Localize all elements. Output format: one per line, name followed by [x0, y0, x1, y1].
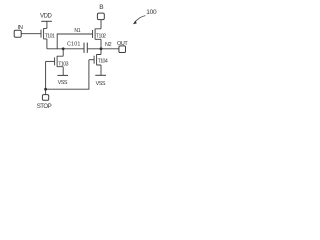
svg-text:N2: N2: [105, 42, 112, 48]
svg-text:VSS: VSS: [58, 80, 68, 86]
svg-text:100: 100: [146, 9, 157, 16]
svg-text:IN: IN: [18, 25, 23, 31]
svg-text:OUT: OUT: [117, 41, 128, 47]
svg-text:T101: T101: [45, 34, 55, 40]
svg-text:STOP: STOP: [37, 103, 52, 110]
svg-text:C101: C101: [67, 42, 81, 48]
svg-text:B: B: [99, 4, 104, 11]
svg-text:T103: T103: [58, 61, 68, 67]
svg-text:T102: T102: [96, 34, 106, 40]
svg-text:VSS: VSS: [96, 81, 106, 87]
svg-text:VDD: VDD: [40, 14, 53, 20]
svg-text:N1: N1: [74, 28, 80, 34]
svg-text:T104: T104: [98, 58, 108, 64]
